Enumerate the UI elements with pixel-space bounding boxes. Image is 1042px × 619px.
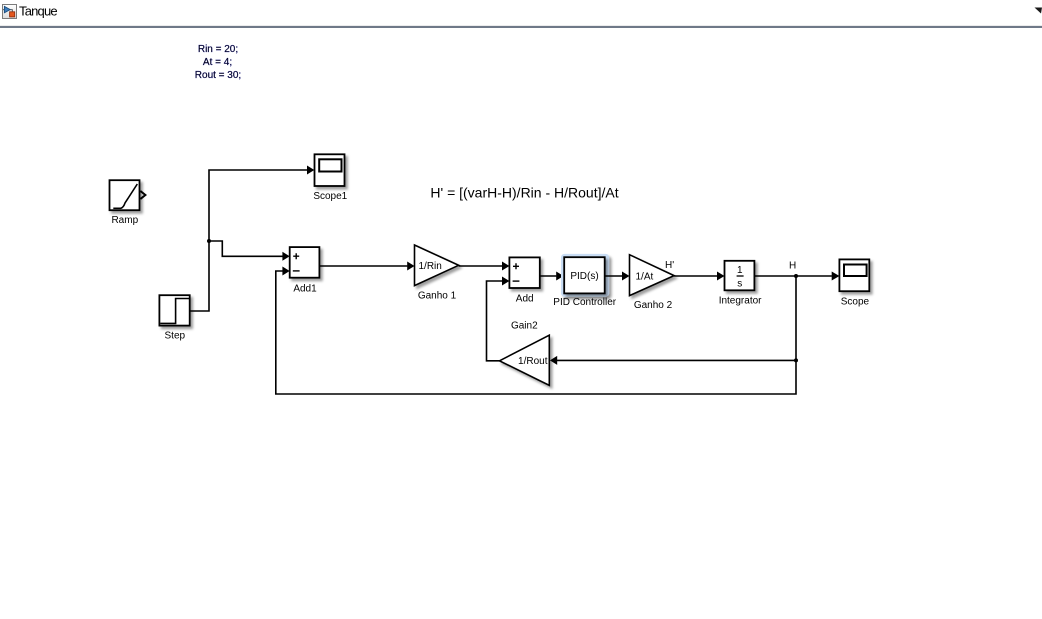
wire PID Controller to Ganho 2 [605, 272, 630, 281]
svg-text:At = 4;: At = 4; [203, 57, 232, 68]
wire Ganho 2 to Integrator [674, 272, 724, 281]
gain Ganho 2 (1/At) [630, 255, 675, 296]
annotation text: At = 4; [203, 57, 232, 68]
title text "Tanque" [19, 4, 57, 19]
block PID Controller [564, 257, 605, 293]
wire Add output to PID Controller [540, 272, 564, 281]
junction dot at H [794, 274, 798, 278]
svg-text:PID(s): PID(s) [570, 271, 598, 282]
annotation text: Rin = 20; [198, 44, 238, 55]
annotation equation H' = [(varH-H)/Rin - H/Rout]/At [430, 185, 618, 201]
svg-text:Integrator: Integrator [719, 295, 762, 306]
svg-text:H': H' [665, 260, 674, 271]
svg-text:Ramp: Ramp [111, 215, 138, 226]
svg-text:Rin = 20;: Rin = 20; [198, 44, 238, 55]
svg-text:Scope1: Scope1 [313, 191, 347, 202]
block Integrator (1/s) [725, 261, 755, 291]
svg-text:PID Controller: PID Controller [553, 297, 616, 308]
selection halo around PID Controller [561, 254, 609, 297]
svg-text:Gain2: Gain2 [511, 320, 538, 331]
label Ganho 1 [418, 290, 457, 301]
signal label H [789, 261, 796, 272]
svg-text:1/At: 1/At [636, 271, 654, 282]
label Ganho 2 [634, 300, 673, 311]
svg-text:1/Rin: 1/Rin [419, 261, 442, 272]
gain Gain2 (1/Rout, flipped) [500, 335, 550, 385]
gain Ganho 1 (1/Rin) [415, 245, 459, 286]
wire Integrator to Scope [754, 272, 839, 281]
block Ramp [110, 180, 140, 210]
title bar icon (subsystem icon) [3, 5, 17, 19]
block Add1 (sum) [290, 247, 320, 278]
label Ramp [111, 215, 138, 226]
breadcrumb dropdown arrow (top right) [1035, 8, 1042, 14]
label Step [165, 331, 186, 342]
block Scope1 [315, 154, 345, 186]
junction dot on feedback at Gain2 branch [794, 358, 798, 362]
signal label H' [665, 260, 674, 271]
svg-text:Add1: Add1 [293, 284, 317, 295]
wire branch to Add1 + input [209, 241, 290, 261]
label PID Controller [553, 297, 616, 308]
svg-text:Scope: Scope [841, 297, 870, 308]
svg-text:Rout = 30;: Rout = 30; [195, 70, 241, 81]
wire Step to Scope1 (up then right) [190, 166, 315, 312]
annotation text: Rout = 30; [195, 70, 241, 81]
svg-text:H: H [789, 261, 796, 272]
wire Gain2 output up to Add - input [487, 277, 510, 361]
svg-text:1: 1 [737, 265, 743, 276]
block Add (sum) [509, 257, 539, 288]
svg-text:H' = [(varH-H)/Rin - H/Rout]/A: H' = [(varH-H)/Rin - H/Rout]/At [430, 185, 618, 201]
svg-text:1/Rout: 1/Rout [518, 356, 548, 367]
junction dot on vertical wire [207, 239, 211, 243]
block Step [159, 295, 189, 325]
label Integrator [719, 295, 762, 306]
feedback wire H down, along bottom, up to Add1 - input [276, 267, 796, 395]
svg-text:Tanque: Tanque [19, 4, 57, 19]
title bar separator line [0, 25, 1042, 28]
wire H branch to Gain2 input [550, 356, 796, 365]
Ramp unconnected output port [140, 191, 145, 199]
label Add1 [293, 284, 317, 295]
label Scope1 [313, 191, 347, 202]
svg-text:Add: Add [516, 293, 534, 304]
svg-text:s: s [737, 279, 742, 290]
label Scope [841, 297, 870, 308]
svg-text:Ganho 1: Ganho 1 [418, 290, 457, 301]
block Scope [839, 259, 869, 291]
label Gain2 [511, 320, 538, 331]
wire Add1 output to Ganho 1 [319, 262, 414, 271]
label Add [516, 293, 534, 304]
svg-text:Step: Step [165, 331, 186, 342]
wire Ganho 1 to Add + input [459, 262, 510, 271]
svg-text:Ganho 2: Ganho 2 [634, 300, 673, 311]
